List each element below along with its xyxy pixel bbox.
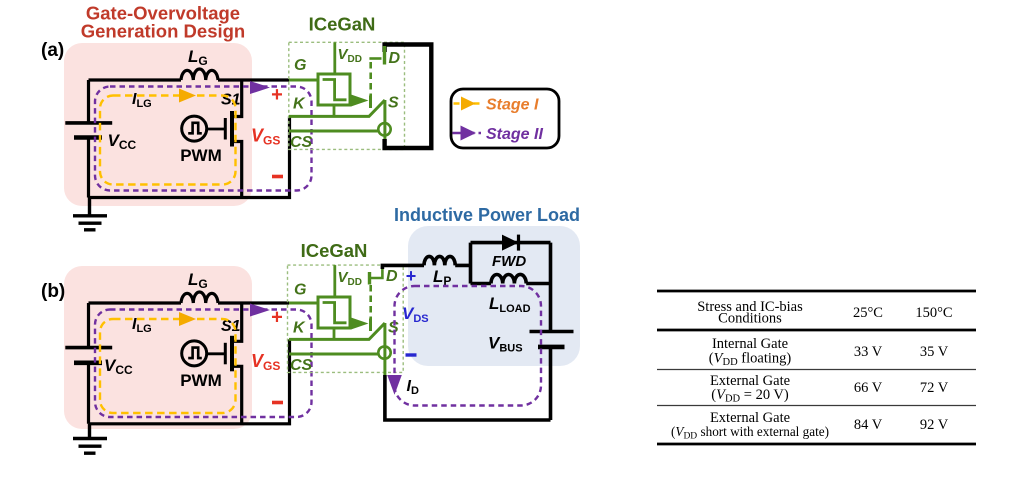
pink background region circuit b	[64, 266, 252, 429]
PWM source a	[182, 116, 207, 141]
svg-text:+: +	[271, 307, 283, 329]
svg-text:ICeGaN: ICeGaN	[301, 240, 368, 261]
stage II loop a	[95, 87, 312, 191]
PWM source b	[182, 341, 207, 366]
wire source vertical a	[383, 100, 386, 139]
comparator U1 b	[318, 297, 350, 328]
comparator U1 a	[318, 74, 350, 105]
inductor LG b	[181, 292, 218, 303]
wire VDD b	[333, 265, 336, 297]
svg-text:Stage I: Stage I	[486, 97, 539, 114]
black short-circuit loop a	[385, 45, 432, 149]
svg-text:84 V: 84 V	[854, 417, 883, 433]
wire CS with loop b	[289, 353, 379, 356]
stage II arrow ID	[387, 375, 402, 395]
label minus b	[272, 401, 283, 405]
pink background region circuit a	[64, 43, 252, 206]
svg-text:D: D	[386, 268, 398, 285]
svg-text:G: G	[294, 57, 306, 74]
svg-text:CS: CS	[290, 134, 313, 151]
svg-text:35 V: 35 V	[920, 344, 949, 360]
svg-text:ICeGaN: ICeGaN	[309, 14, 376, 35]
wire source vertical b	[383, 323, 386, 375]
svg-text:K: K	[293, 320, 306, 337]
blue background region inductive load	[408, 226, 580, 366]
svg-text:S: S	[388, 95, 399, 112]
table row 3	[671, 410, 949, 442]
legend stage I arrow	[454, 102, 482, 105]
svg-text:+: +	[406, 266, 417, 286]
svg-text:Conditions: Conditions	[718, 311, 782, 327]
label minus drain	[406, 353, 417, 356]
wire top a	[89, 78, 290, 81]
svg-text:PWM: PWM	[180, 371, 222, 390]
wire left b	[87, 303, 90, 424]
svg-text:D: D	[389, 50, 401, 67]
wire VDD a	[333, 42, 336, 74]
drain pin a	[369, 57, 381, 60]
table row 1	[709, 336, 949, 368]
svg-text:S1: S1	[221, 318, 241, 335]
label minus a	[272, 175, 283, 179]
legend frame	[451, 89, 559, 148]
stage I arrow b	[179, 312, 196, 326]
stage I loop a	[100, 96, 236, 185]
svg-text:Generation Design: Generation Design	[81, 21, 245, 42]
stage I arrow a	[179, 89, 196, 103]
table header rule	[657, 329, 976, 332]
svg-text:Stage II: Stage II	[486, 126, 543, 143]
table rule 2	[657, 405, 976, 407]
stage I loop b	[100, 319, 236, 413]
svg-text:K: K	[293, 96, 306, 113]
diode FWD	[502, 235, 519, 251]
wire K a	[289, 100, 385, 116]
table row 2	[710, 373, 949, 405]
table top rule	[657, 290, 976, 293]
dash-dot internal drain link a	[369, 62, 372, 97]
internal gate arrow b	[351, 318, 369, 330]
svg-text:Inductive Power Load: Inductive Power Load	[394, 205, 580, 225]
svg-text:+: +	[271, 84, 283, 106]
wire gate a	[207, 128, 225, 131]
wire K b	[289, 323, 385, 339]
svg-text:(a): (a)	[41, 40, 64, 61]
svg-text:(b): (b)	[41, 281, 65, 302]
title Gate-Overvoltage Generation Design	[81, 3, 245, 42]
ground b	[73, 424, 107, 453]
svg-text:PWM: PWM	[180, 146, 222, 165]
wire bottom b	[89, 339, 290, 423]
svg-text:(VDD floating): (VDD floating)	[709, 351, 792, 369]
svg-text:S1: S1	[221, 92, 241, 109]
table bottom rule	[657, 443, 976, 446]
ground a	[73, 198, 107, 230]
svg-text:25°C: 25°C	[853, 305, 883, 321]
battery VCC b	[65, 346, 112, 350]
stage II loop b	[95, 310, 312, 418]
IC boundary dashed box a	[289, 42, 405, 149]
wire LP to split	[455, 243, 470, 284]
wire right vertical	[549, 243, 553, 420]
battery VBUS	[530, 330, 574, 334]
inductor LP	[424, 256, 455, 265]
transistor S1 a	[224, 118, 227, 140]
wire gate green b	[289, 302, 318, 305]
dash-dot internal drain link b	[369, 285, 372, 320]
wire CS with loop a	[289, 130, 379, 133]
IC boundary dashed box b	[288, 265, 404, 372]
svg-text:72 V: 72 V	[920, 380, 949, 396]
wire drain to LP	[382, 265, 424, 269]
svg-text:G: G	[294, 282, 306, 299]
comparator output stub b	[333, 328, 336, 339]
inductor LLOAD	[491, 274, 526, 283]
svg-text:33 V: 33 V	[854, 344, 883, 360]
stage II arrow a	[250, 81, 270, 94]
svg-text:(VDD = 20 V): (VDD = 20 V)	[711, 387, 789, 405]
load inductor branch	[471, 282, 551, 286]
drain pin b	[368, 272, 371, 285]
wire top b	[89, 301, 290, 304]
wire bottom load	[385, 375, 551, 420]
battery VCC a	[65, 121, 112, 125]
legend stage II arrow	[453, 132, 482, 135]
stage II drain loop b	[395, 286, 542, 406]
svg-text:150°C: 150°C	[915, 305, 952, 321]
wire gate green a	[289, 79, 318, 82]
wire left a	[87, 80, 90, 198]
inductor LG a	[181, 69, 218, 80]
internal gate arrow a	[351, 95, 369, 107]
transistor S1 b	[224, 343, 227, 365]
comparator output stub a	[333, 105, 336, 116]
svg-text:CS: CS	[290, 357, 313, 374]
svg-text:92 V: 92 V	[920, 417, 949, 433]
svg-text:FWD: FWD	[492, 253, 526, 270]
table rule 1	[657, 369, 976, 371]
wire bottom a	[89, 116, 290, 197]
svg-text:66 V: 66 V	[854, 380, 883, 396]
freewheeling diode branch	[471, 241, 551, 245]
table header	[697, 299, 952, 327]
stage II arrow b	[250, 304, 270, 317]
wire gate b	[207, 352, 225, 355]
